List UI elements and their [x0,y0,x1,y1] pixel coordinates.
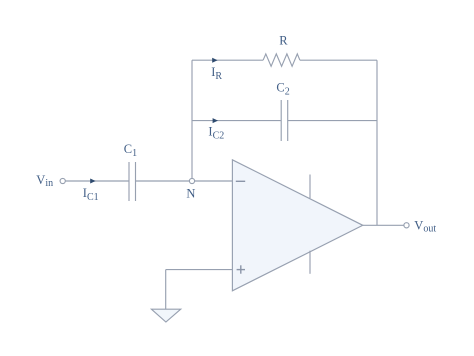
terminal Vin [60,178,65,183]
terminal Vout [404,223,409,228]
current arrow IR [212,58,217,63]
op-amp U1 body [232,160,362,291]
wire: right feedback vertical [376,60,378,225]
wire: C1 to op-amp minus input (through node N) [136,180,232,182]
wire: node N up to feedback loop [191,60,193,178]
capacitor C1 [128,162,130,201]
wire: top feedback right segment [300,59,377,61]
resistor R [263,54,300,66]
wire: plus input horizontal [166,269,233,271]
svg-text:IC1: IC1 [83,186,99,203]
wire: top feedback left segment [192,59,263,61]
svg-text:IC2: IC2 [208,124,224,141]
current arrow IC1 [90,179,95,184]
svg-text:C1: C1 [124,142,137,159]
op-amp negative supply pin [309,251,311,274]
svg-text:Vin: Vin [36,173,53,189]
op-amp minus sign [236,180,245,182]
op-amp plus sign [237,265,245,273]
op-amp positive supply pin [309,175,311,199]
capacitor C2 [280,100,282,141]
svg-text:N: N [186,187,195,201]
svg-text:R: R [279,34,288,48]
wire: middle feedback right segment [288,120,377,122]
svg-text:Vout: Vout [414,219,436,235]
current arrow IC2 [213,118,218,123]
svg-text:IR: IR [211,65,222,82]
node N [189,178,194,183]
wire: Vin terminal to C1 [65,180,128,182]
wire: ground vertical [165,270,167,310]
svg-text:C2: C2 [276,81,289,98]
ground [151,309,180,322]
wire: middle feedback left segment [192,120,281,122]
wire: output [363,224,404,226]
